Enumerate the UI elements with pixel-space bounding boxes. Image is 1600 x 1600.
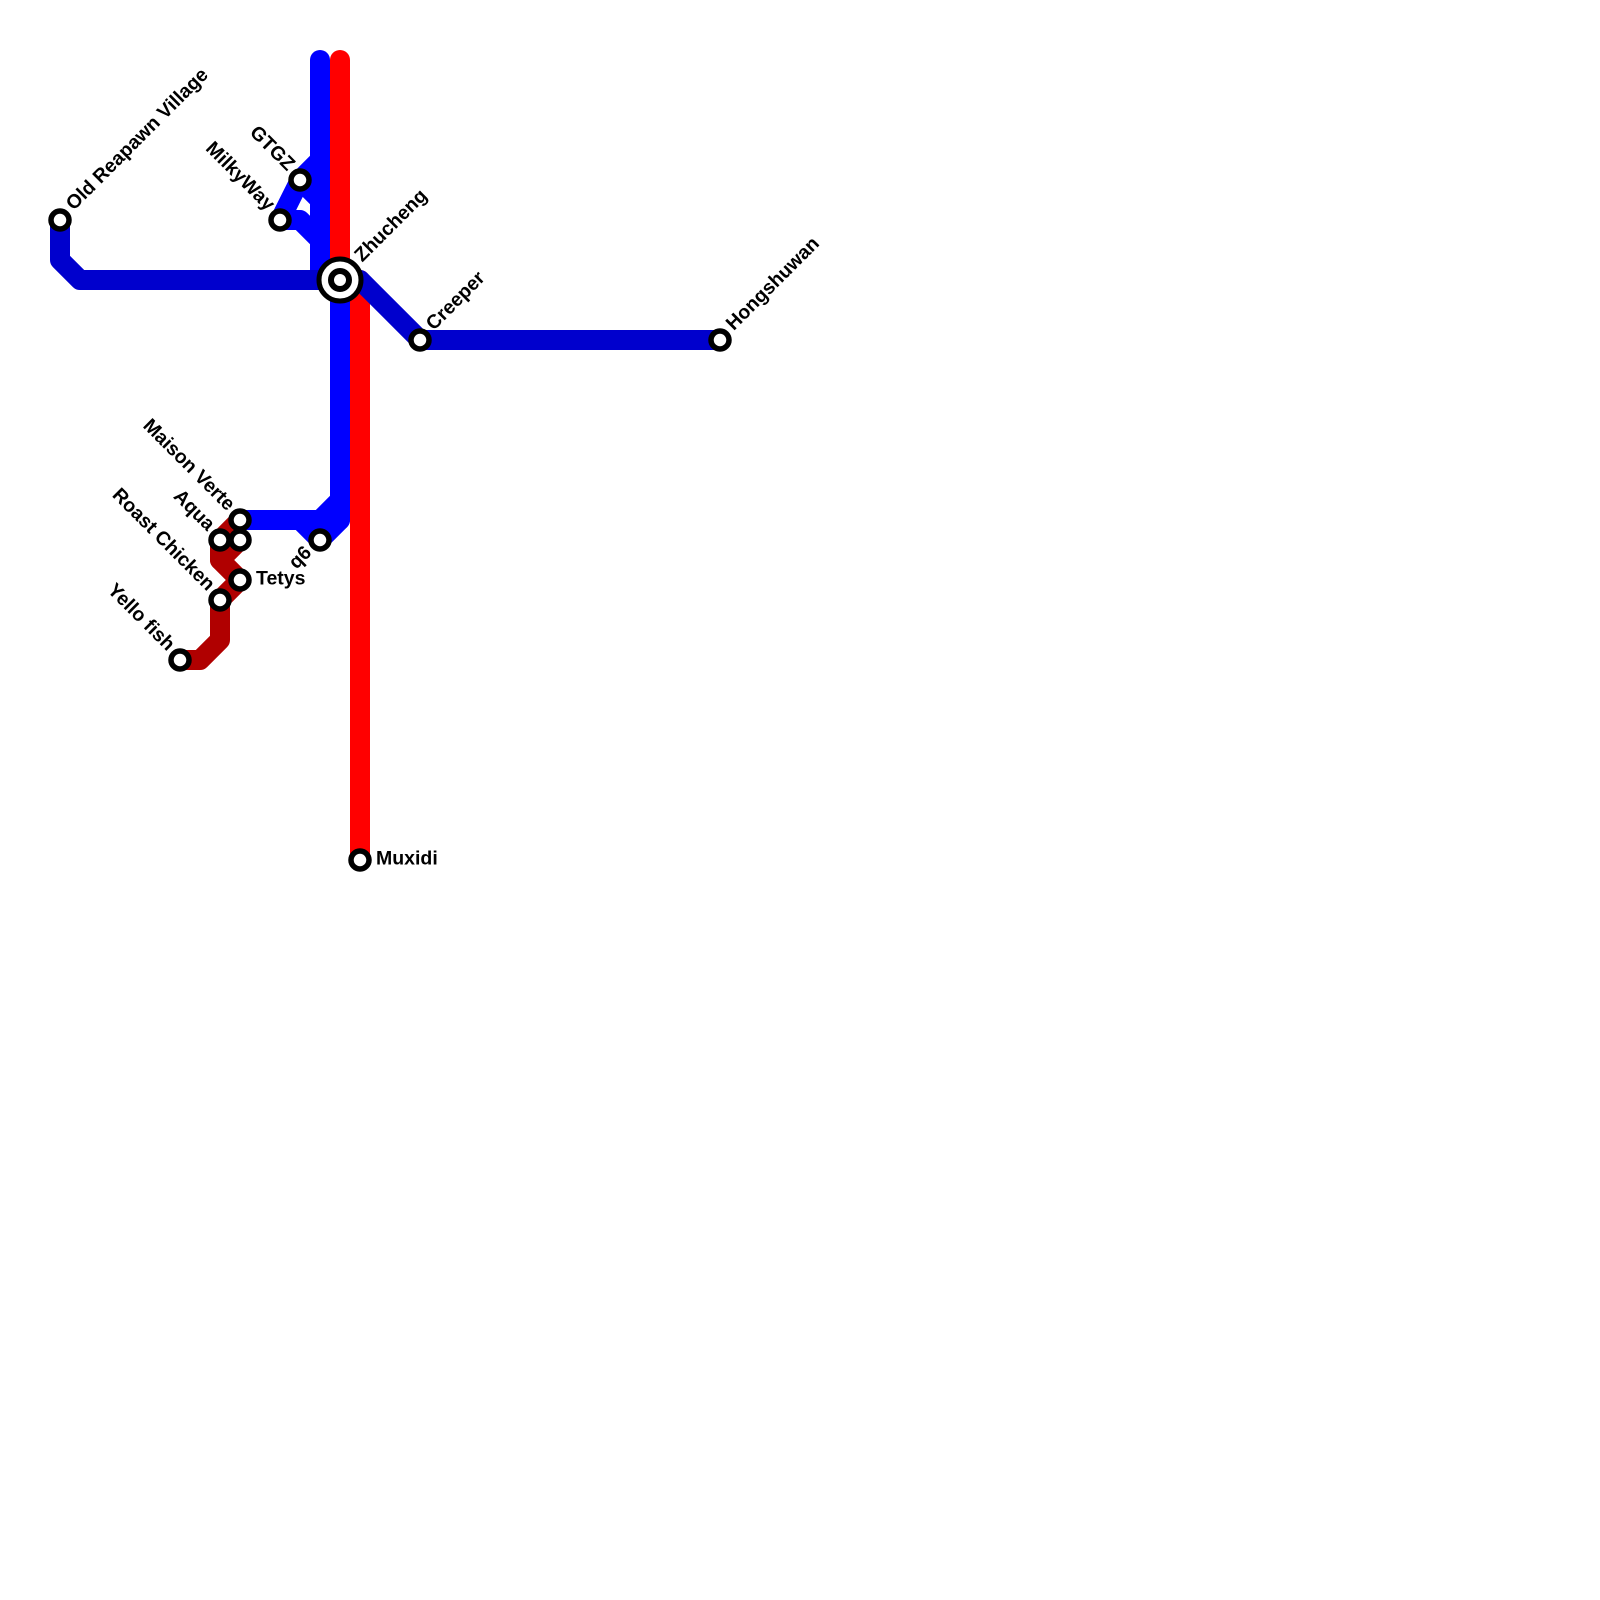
svg-text:Tetys: Tetys [256,568,306,590]
svg-text:Muxidi: Muxidi [376,848,438,870]
